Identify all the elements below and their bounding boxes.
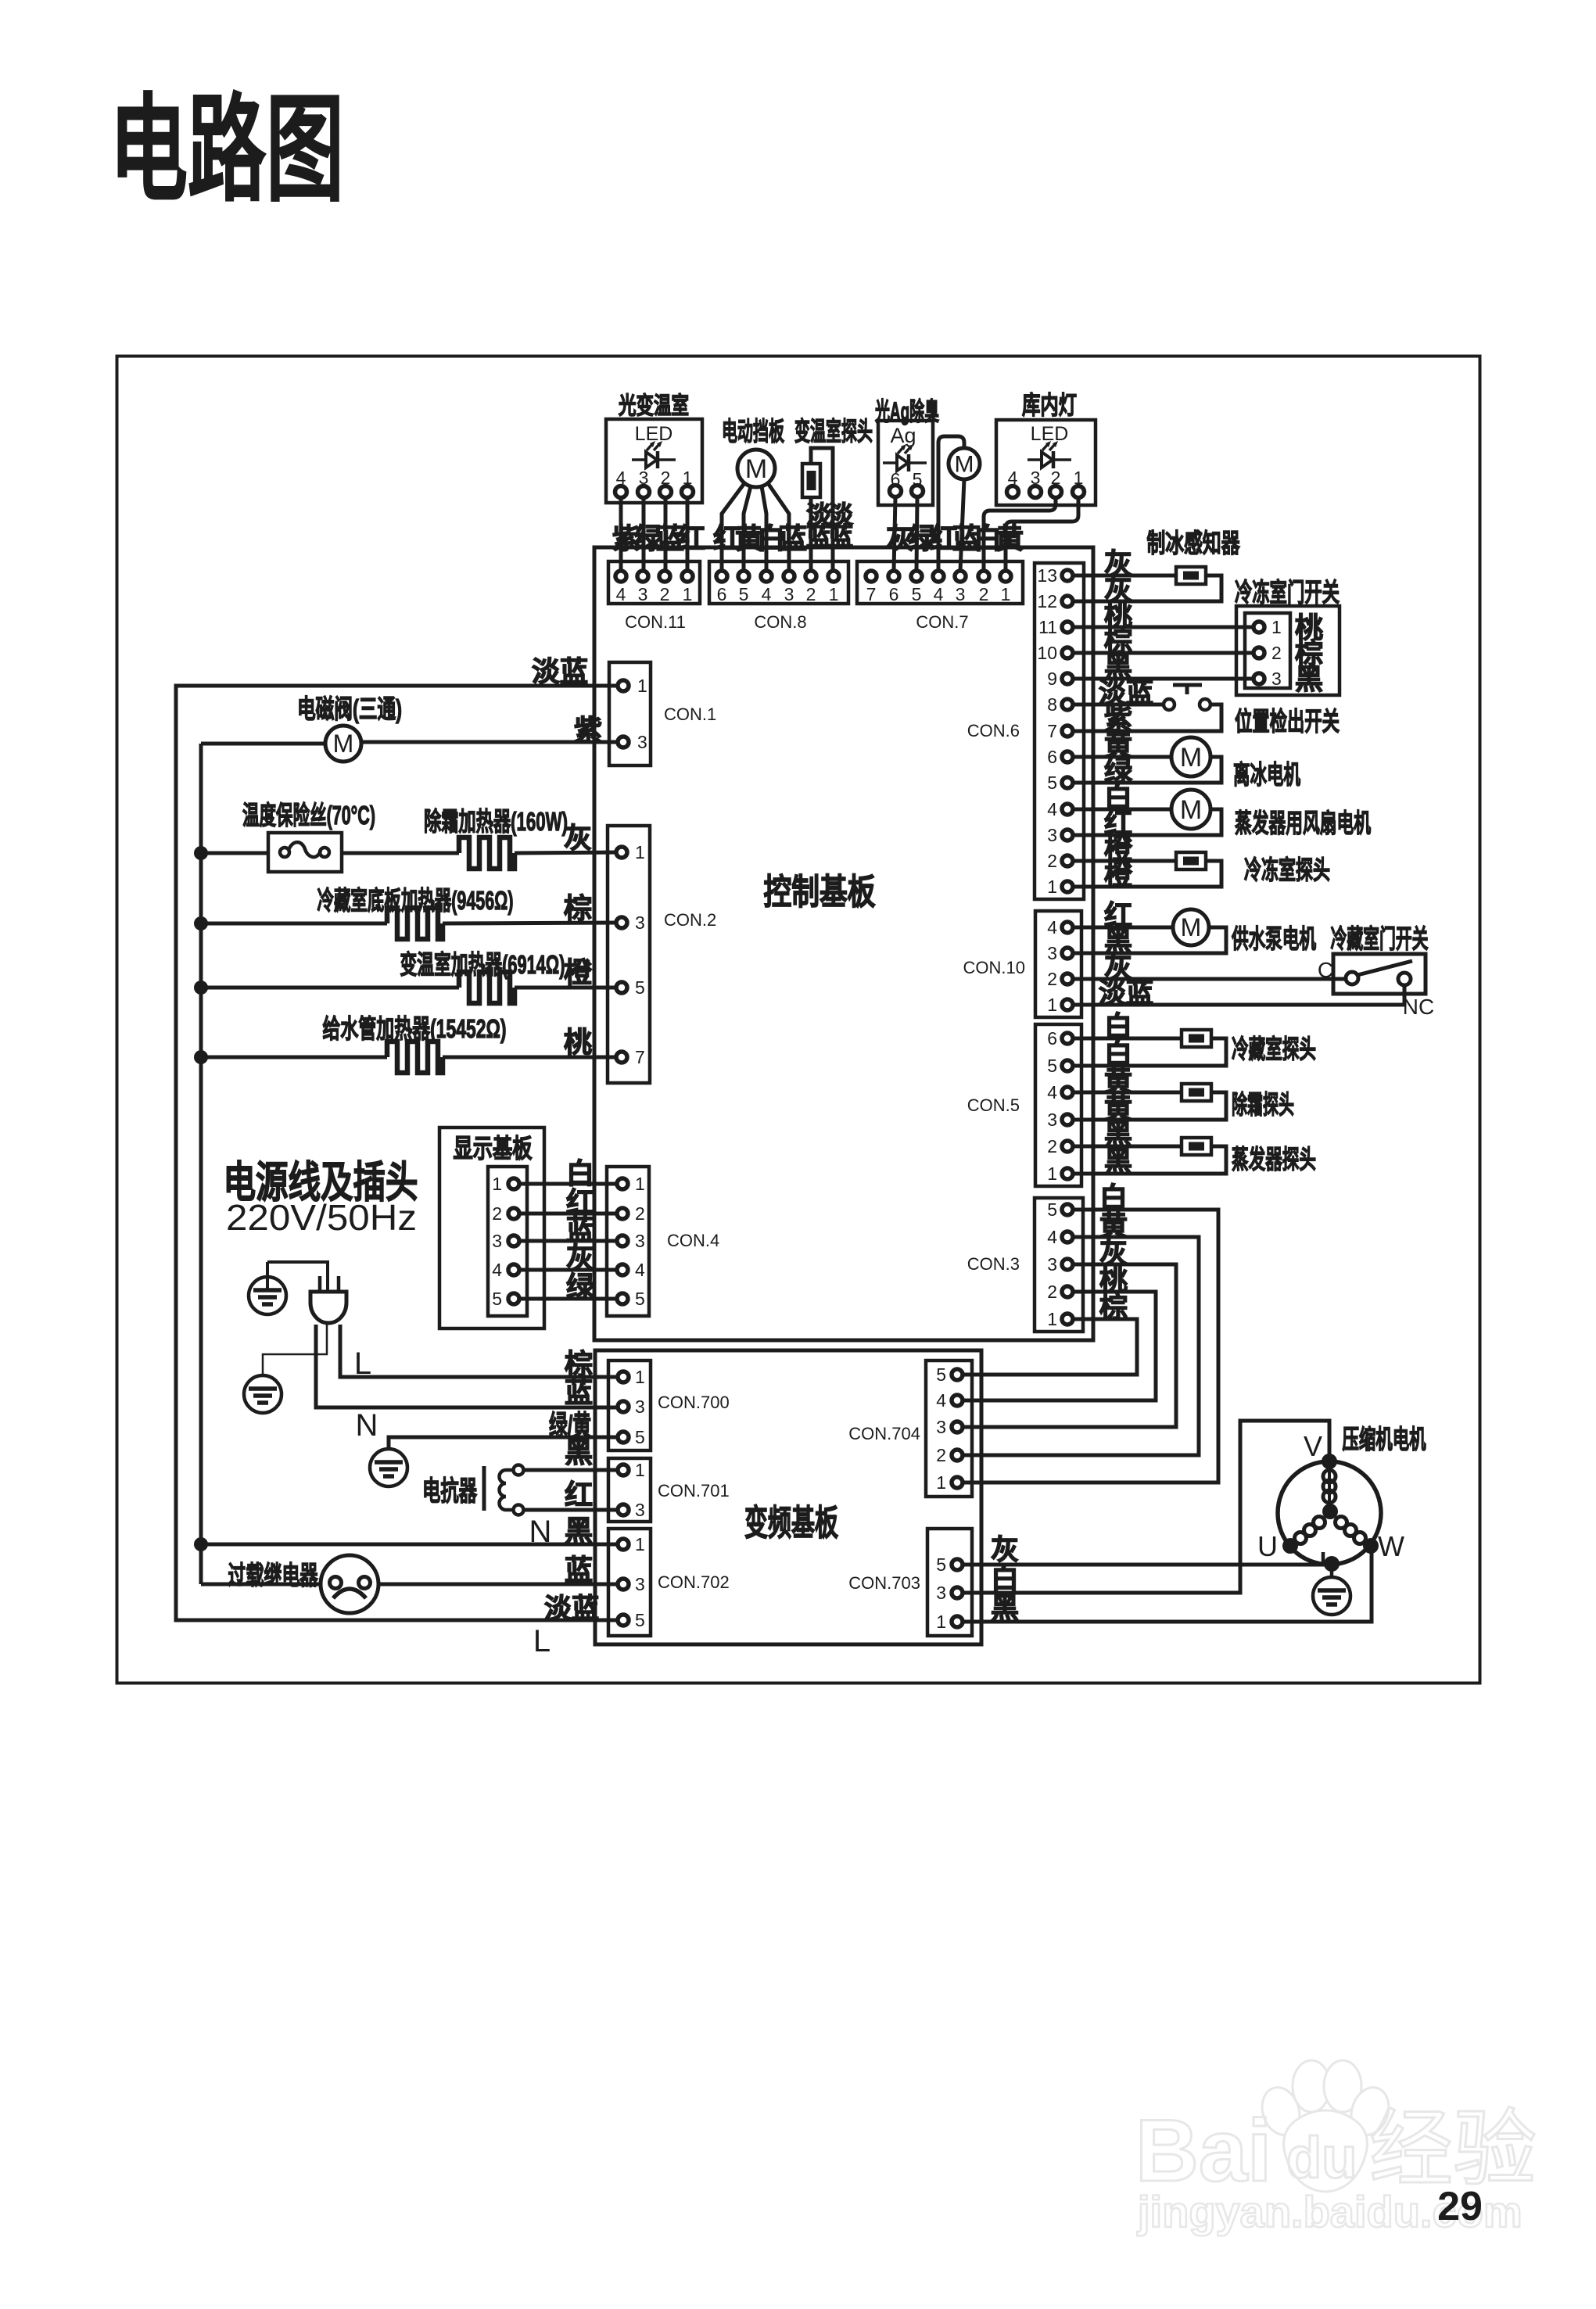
svg-text:3: 3	[635, 1231, 645, 1251]
svg-text:3: 3	[956, 584, 966, 604]
svg-text:CON.4: CON.4	[667, 1231, 719, 1250]
connector CON.704	[848, 1361, 972, 1497]
junction dot heater4	[194, 1050, 208, 1064]
wire sensor top to CON.8 pin1	[811, 448, 833, 571]
label 淡蓝 (CON.702 pin5)	[544, 1594, 599, 1624]
connector CON.701	[608, 1458, 730, 1522]
wire CON.6 pin4 to fan motor	[1072, 808, 1171, 812]
svg-text:5: 5	[739, 584, 749, 604]
label 绿/黄 (CON.700 pin5)	[549, 1411, 591, 1441]
watermark Baidu jingyan	[1135, 2060, 1537, 2236]
wire PE to CON.700 pin5	[389, 1437, 619, 1449]
wire CON.5 pin2 to evap sensor	[1072, 1145, 1182, 1149]
label 位置检出开关	[1235, 707, 1340, 736]
connector CON.700	[608, 1361, 730, 1450]
connector CON.3	[967, 1198, 1083, 1332]
svg-text:1: 1	[635, 1534, 645, 1554]
svg-text:5: 5	[492, 1289, 502, 1309]
label 蒸发器用风扇电机	[1235, 809, 1371, 837]
label 给水管加热器(15452Ω)	[323, 1014, 507, 1043]
svg-text:1: 1	[1271, 617, 1282, 637]
svg-text:3: 3	[1271, 669, 1282, 689]
svg-text:控制基板: 控制基板	[764, 872, 876, 912]
label 红 (CON.701 pin3)	[565, 1479, 593, 1511]
label N (bottom)	[529, 1515, 552, 1549]
svg-text:显示基板: 显示基板	[454, 1134, 533, 1163]
svg-text:2: 2	[806, 584, 816, 604]
svg-text:V: V	[1304, 1430, 1322, 1462]
svg-text:CON.8: CON.8	[754, 612, 806, 632]
label 变温室探头	[794, 417, 873, 446]
svg-text:4: 4	[492, 1260, 502, 1280]
label L (top)	[354, 1346, 371, 1381]
svg-text:离冰电机: 离冰电机	[1233, 760, 1300, 789]
label 冷冻室门开关	[1235, 578, 1340, 607]
overload relay 过载继电器	[321, 1555, 378, 1613]
wire ice sensor loop to pin12	[1072, 575, 1221, 601]
svg-text:红: 红	[677, 522, 705, 554]
svg-text:du: du	[1286, 2125, 1357, 2190]
outer border frame	[117, 357, 1480, 1683]
wire CON.5 pin4 to defrost sensor	[1072, 1091, 1182, 1095]
label 显示基板	[454, 1134, 533, 1163]
svg-text:蒸发器探头: 蒸发器探头	[1232, 1145, 1316, 1174]
svg-text:7: 7	[866, 584, 877, 604]
svg-text:CON.701: CON.701	[658, 1481, 730, 1500]
wire CON.5 pin6 to fridge sensor	[1072, 1037, 1182, 1041]
sensor 除霜探头	[1182, 1084, 1211, 1101]
label 冷藏室底板加热器(9456Ω)	[317, 886, 514, 915]
svg-text:CON.703: CON.703	[848, 1573, 920, 1593]
svg-text:3: 3	[784, 584, 794, 604]
wire 库内灯 pin1 to CON.7 pin1	[1006, 498, 1078, 571]
svg-text:1: 1	[635, 1174, 645, 1194]
wire CON.3 pin2 to CON.704 pin4	[962, 1292, 1156, 1400]
wire CON.3 pin4 to CON.704 pin2	[962, 1237, 1199, 1455]
svg-text:3: 3	[638, 584, 648, 604]
svg-text:3: 3	[637, 732, 647, 752]
sensor 蒸发器探头	[1182, 1138, 1211, 1155]
svg-text:绿: 绿	[566, 1271, 595, 1303]
label 蓝 (CON.700 pin3)	[565, 1376, 593, 1408]
label 电抗器	[422, 1475, 478, 1507]
cord PE	[263, 1325, 327, 1375]
svg-text:L: L	[533, 1624, 551, 1658]
thermal fuse 70C	[268, 833, 342, 872]
wire labels 紫绿蓝红	[612, 522, 705, 554]
wire N bus left	[199, 744, 203, 1584]
mains plug	[310, 1276, 346, 1323]
svg-text:CON.5: CON.5	[967, 1095, 1020, 1115]
label 蓝 (CON.702 pin3)	[565, 1554, 593, 1586]
svg-text:4: 4	[1047, 1227, 1057, 1247]
wire heater3 to CON.2 pin5	[515, 986, 619, 990]
wire solenoid to N bus	[201, 742, 325, 746]
svg-text:CON.3: CON.3	[967, 1254, 1020, 1274]
junction dot heater2	[194, 916, 208, 930]
label 制冰感知器	[1147, 529, 1241, 558]
wire CON.3 pin1 to CON.704 pin5	[962, 1319, 1137, 1375]
label 紫 (CON.1 pin3)	[574, 714, 602, 746]
junction dot N-CON702	[194, 1537, 208, 1551]
svg-text:U: U	[1257, 1530, 1278, 1562]
svg-text:棕: 棕	[1099, 1291, 1128, 1323]
svg-text:M: M	[1181, 913, 1202, 941]
label 黑 (CON.703 pin1)	[991, 1592, 1019, 1624]
cord L	[340, 1325, 619, 1377]
svg-text:蓝: 蓝	[565, 1376, 593, 1408]
wire labels CON.8 红黄白蓝	[713, 522, 807, 554]
svg-text:4: 4	[616, 584, 626, 604]
svg-text:变温室加热器(6914Ω): 变温室加热器(6914Ω)	[400, 950, 565, 979]
wire position switch to pin7	[1072, 705, 1221, 731]
svg-text:1: 1	[492, 1174, 502, 1194]
control board 控制基板	[594, 547, 1093, 1340]
svg-text:4: 4	[762, 584, 772, 604]
svg-text:1: 1	[1047, 1163, 1057, 1184]
label 电磁阀(三通)	[297, 694, 402, 723]
LED lamp 光变温室 (photo temp-zone LED)	[606, 393, 702, 503]
svg-text:3: 3	[492, 1231, 502, 1251]
freezer door switch connector	[1236, 606, 1340, 695]
svg-text:3: 3	[1047, 825, 1057, 845]
svg-text:5: 5	[1047, 1056, 1057, 1076]
svg-text:Ag: Ag	[890, 424, 916, 447]
ground symbol 3	[370, 1449, 407, 1486]
label N (top)	[356, 1408, 378, 1443]
label 黑 (CON.702 pin1)	[565, 1515, 593, 1547]
label 变频基板	[744, 1503, 838, 1543]
reactor 电抗器	[484, 1465, 524, 1515]
wire CON.10 pin4 to pump motor	[1072, 926, 1173, 930]
svg-text:压缩机电机: 压缩机电机	[1343, 1425, 1426, 1454]
svg-text:2: 2	[1047, 851, 1057, 871]
svg-text:2: 2	[1047, 1136, 1057, 1156]
svg-text:3: 3	[635, 1397, 645, 1417]
svg-text:10: 10	[1037, 643, 1057, 663]
svg-text:灰: 灰	[564, 822, 592, 854]
svg-text:蓝: 蓝	[566, 1214, 594, 1246]
wire labels 淡蓝 stacked	[806, 500, 854, 550]
wire CON.10 pin2 to door switch C	[1072, 977, 1347, 981]
motor M1 电动挡板	[737, 450, 775, 487]
svg-text:2: 2	[660, 584, 670, 604]
wire defrost sensor to pin3	[1072, 1092, 1226, 1120]
sensor 变温室探头	[802, 464, 820, 497]
label 除霜加热器(160W)	[424, 807, 568, 836]
svg-text:5: 5	[1047, 1199, 1057, 1220]
svg-text:M: M	[333, 730, 354, 758]
connector CON.702	[608, 1529, 730, 1636]
label 控制基板	[764, 872, 876, 912]
wire fridge sensor to pin5	[1072, 1038, 1226, 1066]
junction dot heater1	[194, 846, 208, 860]
wire CON.6 pin2 to freezer sensor	[1072, 859, 1176, 863]
svg-text:3: 3	[635, 1500, 645, 1520]
sensor 冷藏室探头	[1182, 1030, 1211, 1047]
ground symbol 2	[244, 1375, 282, 1413]
wire ice motor to pin5	[1072, 757, 1221, 783]
svg-text:棕: 棕	[565, 1348, 593, 1380]
label 棕 (CON.2 pin3)	[564, 892, 592, 924]
svg-text:M: M	[955, 452, 974, 478]
svg-text:4: 4	[1047, 917, 1057, 938]
svg-text:电磁阀(三通): 电磁阀(三通)	[297, 694, 402, 723]
svg-text:蓝: 蓝	[565, 1554, 593, 1586]
svg-text:L: L	[354, 1346, 371, 1381]
LED lamp 库内灯 (interior light)	[996, 391, 1096, 505]
label 淡蓝 (CON.1 pin1)	[532, 655, 588, 687]
wire compressor earth	[1330, 1564, 1334, 1577]
svg-text:棕: 棕	[564, 892, 592, 924]
svg-text:灰: 灰	[566, 1242, 594, 1274]
wire heater2 to CON.2 pin3	[443, 923, 619, 923]
label 白 (CON.703 pin3)	[991, 1562, 1019, 1594]
svg-text:5: 5	[912, 584, 922, 604]
label 桃 (CON.2 pin7)	[564, 1026, 592, 1058]
label 灰 (CON.703 pin5)	[991, 1533, 1019, 1565]
svg-text:7: 7	[635, 1047, 645, 1067]
label 除霜探头	[1232, 1090, 1294, 1119]
svg-text:6: 6	[717, 584, 727, 604]
connector CON.5	[967, 1024, 1081, 1186]
label 黑 (CON.701 pin1)	[565, 1436, 593, 1468]
label 蒸发器探头	[1232, 1145, 1316, 1174]
svg-text:5: 5	[936, 1364, 946, 1385]
connector CON.2	[608, 826, 716, 1083]
label 冷冻室探头	[1244, 855, 1330, 884]
wire heater4 to CON.2 pin7	[443, 1056, 619, 1059]
svg-text:蓝: 蓝	[779, 522, 807, 554]
svg-text:黑: 黑	[565, 1515, 593, 1547]
svg-text:位置检出开关: 位置检出开关	[1235, 707, 1340, 736]
wire N bus to heater2	[201, 922, 387, 926]
svg-text:6: 6	[889, 584, 899, 604]
svg-text:4: 4	[936, 1390, 946, 1411]
svg-text:电动挡板: 电动挡板	[722, 417, 784, 446]
wire 黑 CON.703 pin1 to compressor W	[962, 1550, 1372, 1622]
compressor motor 压缩机电机	[1257, 1430, 1404, 1572]
svg-text:光变温室: 光变温室	[619, 393, 689, 419]
svg-text:变频基板: 变频基板	[744, 1503, 838, 1543]
connector CON.7	[857, 561, 1023, 632]
svg-text:1: 1	[637, 676, 647, 696]
wire N bus to fuse	[201, 852, 268, 855]
wire M2 top to CON.7 pin4	[938, 436, 964, 571]
motor 蒸发器用风扇电机	[1171, 790, 1210, 829]
svg-text:11: 11	[1038, 617, 1057, 637]
connector CON.11	[608, 561, 700, 632]
svg-text:给水管加热器(15452Ω): 给水管加热器(15452Ω)	[323, 1014, 507, 1043]
svg-text:2: 2	[635, 1203, 645, 1224]
svg-text:红: 红	[565, 1479, 593, 1511]
svg-text:电路图: 电路图	[109, 84, 344, 215]
compressor earth tick	[1322, 1552, 1325, 1564]
labels 桃棕黑 (door conn)	[1295, 611, 1323, 695]
svg-text:8: 8	[1047, 694, 1057, 715]
svg-text:5: 5	[635, 1427, 645, 1447]
svg-text:5: 5	[635, 1610, 645, 1630]
wire CON.6 pin13 to ice sensor	[1072, 574, 1176, 578]
svg-text:LED: LED	[635, 423, 673, 445]
wire labels CON.6	[1099, 547, 1153, 891]
heater 变温室加热器	[459, 972, 515, 1003]
svg-text:黑: 黑	[1295, 663, 1323, 695]
wire M2 bottom to CON.7 pin3	[960, 479, 964, 571]
svg-text:淡蓝: 淡蓝	[532, 655, 588, 687]
svg-text:CON.1: CON.1	[664, 705, 716, 724]
sensor 冷冻室探头	[1176, 852, 1206, 869]
svg-text:CON.7: CON.7	[916, 612, 968, 632]
heater 除霜加热器 (defrost heater)	[459, 837, 515, 869]
svg-text:蒸发器用风扇电机: 蒸发器用风扇电机	[1235, 809, 1371, 837]
wire evap sensor to pin1	[1072, 1146, 1226, 1174]
svg-text:6: 6	[1047, 747, 1057, 767]
svg-text:除霜探头: 除霜探头	[1232, 1090, 1294, 1119]
svg-text:1: 1	[635, 842, 645, 862]
wire N bus to relay	[201, 1583, 321, 1587]
connector CON.10	[963, 911, 1081, 1017]
svg-text:6: 6	[1047, 1028, 1057, 1049]
svg-text:变温室探头: 变温室探头	[794, 417, 873, 446]
svg-text:1: 1	[1001, 584, 1011, 604]
label 变温室加热器(6914Ω)	[400, 950, 565, 979]
wire CON.6 pin9 to door conn 3	[1072, 677, 1254, 681]
wire sensor bottom to CON.8 pin2	[809, 497, 813, 571]
label L (bottom)	[533, 1624, 551, 1658]
wire labels CON.5	[1104, 1010, 1132, 1178]
svg-text:2: 2	[1271, 643, 1282, 663]
svg-text:库内灯: 库内灯	[1022, 391, 1077, 419]
svg-text:5: 5	[635, 977, 645, 998]
svg-text:2: 2	[936, 1445, 946, 1465]
ground symbol 1	[249, 1262, 286, 1314]
label 棕 (CON.700 pin1)	[565, 1348, 593, 1380]
svg-text:1: 1	[1047, 995, 1057, 1015]
heater 给水管加热器	[387, 1042, 443, 1073]
wire N to CON.702 pin1	[201, 1543, 619, 1547]
svg-text:3: 3	[1047, 1254, 1057, 1275]
junction dot heater3	[194, 981, 208, 995]
svg-text:3: 3	[635, 1574, 645, 1594]
svg-text:桃: 桃	[564, 1026, 592, 1058]
svg-text:M: M	[1180, 743, 1202, 773]
wires display to CON.4	[518, 1184, 618, 1299]
wires M1 to CON.8	[722, 483, 789, 571]
svg-text:4: 4	[635, 1260, 645, 1280]
svg-text:N: N	[356, 1408, 378, 1443]
wire CON.6 pin11 to door conn 1	[1072, 626, 1254, 629]
svg-text:12: 12	[1037, 591, 1057, 611]
svg-text:W: W	[1378, 1530, 1404, 1562]
wire N bus to heater3	[201, 986, 459, 990]
svg-text:制冰感知器: 制冰感知器	[1147, 529, 1241, 558]
LED lamp 光Ag除臭 (Ag deodorizer)	[875, 397, 939, 505]
wire CON.3 pin5 to CON.704 pin1	[962, 1210, 1218, 1483]
svg-text:3: 3	[1047, 1110, 1057, 1130]
connector CON.1	[609, 662, 716, 765]
svg-text:220V/50Hz: 220V/50Hz	[226, 1197, 417, 1238]
wire reactor to CON.701 pin3	[524, 1508, 619, 1512]
label 220V/50Hz	[226, 1197, 417, 1238]
svg-text:1: 1	[635, 1367, 645, 1387]
label 灰 (CON.2 pin1)	[564, 822, 592, 854]
svg-text:1: 1	[936, 1472, 946, 1493]
svg-text:7: 7	[1047, 721, 1057, 741]
svg-text:白: 白	[991, 1562, 1019, 1594]
svg-text:橙: 橙	[564, 956, 592, 988]
ground symbol 4 (compressor)	[1313, 1577, 1350, 1615]
display board connector	[488, 1167, 527, 1316]
svg-text:1: 1	[683, 584, 693, 604]
svg-text:C: C	[1318, 958, 1333, 982]
wire CON.6 pin8 to position switch	[1072, 703, 1164, 707]
svg-text:5: 5	[1047, 773, 1057, 793]
label 冷藏室门开关	[1331, 924, 1429, 953]
svg-text:冷藏室探头: 冷藏室探头	[1232, 1034, 1316, 1063]
svg-text:2: 2	[979, 584, 989, 604]
svg-text:灰: 灰	[991, 1533, 1019, 1565]
label 供水泵电机	[1232, 924, 1316, 953]
svg-text:M: M	[1180, 795, 1202, 825]
svg-text:经验: 经验	[1369, 2102, 1537, 2196]
svg-text:黑: 黑	[565, 1436, 593, 1468]
svg-text:4: 4	[934, 584, 944, 604]
wire heater1 to CON.2 pin1	[515, 852, 619, 853]
label 电动挡板	[722, 417, 784, 446]
position switch 位置检出开关	[1164, 685, 1210, 710]
wire fuse to heater1	[342, 852, 459, 855]
svg-text:CON.2: CON.2	[664, 910, 716, 930]
svg-text:3: 3	[1047, 943, 1057, 963]
wire freezer sensor to pin1	[1072, 861, 1221, 887]
svg-text:1: 1	[635, 1460, 645, 1480]
wire 库内灯 pin2 to CON.7 pin2	[984, 498, 1056, 571]
motor 供水泵电机	[1173, 909, 1209, 945]
svg-text:CON.11: CON.11	[625, 612, 686, 632]
wire N bus to heater4	[201, 1056, 387, 1059]
label NC	[1403, 995, 1434, 1019]
connector CON.703	[848, 1529, 972, 1636]
svg-text:温度保险丝(70°C): 温度保险丝(70°C)	[242, 801, 375, 830]
svg-text:2: 2	[1047, 969, 1057, 989]
wire 白 CON.703 pin3 to compressor V	[962, 1421, 1329, 1593]
wires LED1 to CON.11	[621, 498, 687, 571]
display board 显示基板	[439, 1128, 544, 1328]
wire labels CON.10	[1099, 899, 1153, 1009]
wire relay to CON.702 pin3	[378, 1583, 619, 1587]
wire pump motor to pin3	[1072, 927, 1226, 953]
svg-text:2: 2	[492, 1203, 502, 1224]
svg-text:1: 1	[829, 584, 839, 604]
label 过载继电器	[228, 1561, 319, 1590]
svg-text:4: 4	[1047, 1082, 1057, 1103]
svg-text:供水泵电机: 供水泵电机	[1232, 924, 1316, 953]
wire CON.6 pin6 to ice motor	[1072, 755, 1171, 759]
label 电源线及插头	[224, 1158, 418, 1206]
sensor 制冰感知器 (ice maker sensor)	[1176, 567, 1206, 584]
inverter board 变频基板	[595, 1350, 981, 1644]
connector CON.6	[967, 563, 1084, 899]
wire 淡蓝 bus left	[176, 686, 619, 1620]
svg-text:LED: LED	[1031, 423, 1069, 445]
svg-text:淡蓝: 淡蓝	[544, 1594, 599, 1624]
motor 离冰电机	[1171, 737, 1210, 776]
connector CON.8	[709, 561, 848, 632]
page number 29	[1437, 2184, 1483, 2229]
motor M2 (fan)	[949, 448, 980, 479]
connector CON.4	[607, 1167, 719, 1316]
